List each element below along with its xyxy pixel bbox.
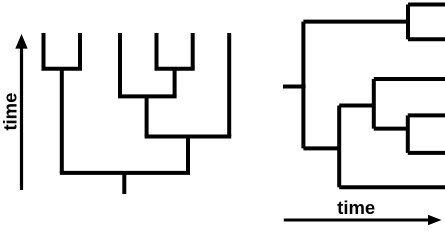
svg-text:time: time xyxy=(0,93,21,131)
svg-text:time: time xyxy=(337,197,375,218)
